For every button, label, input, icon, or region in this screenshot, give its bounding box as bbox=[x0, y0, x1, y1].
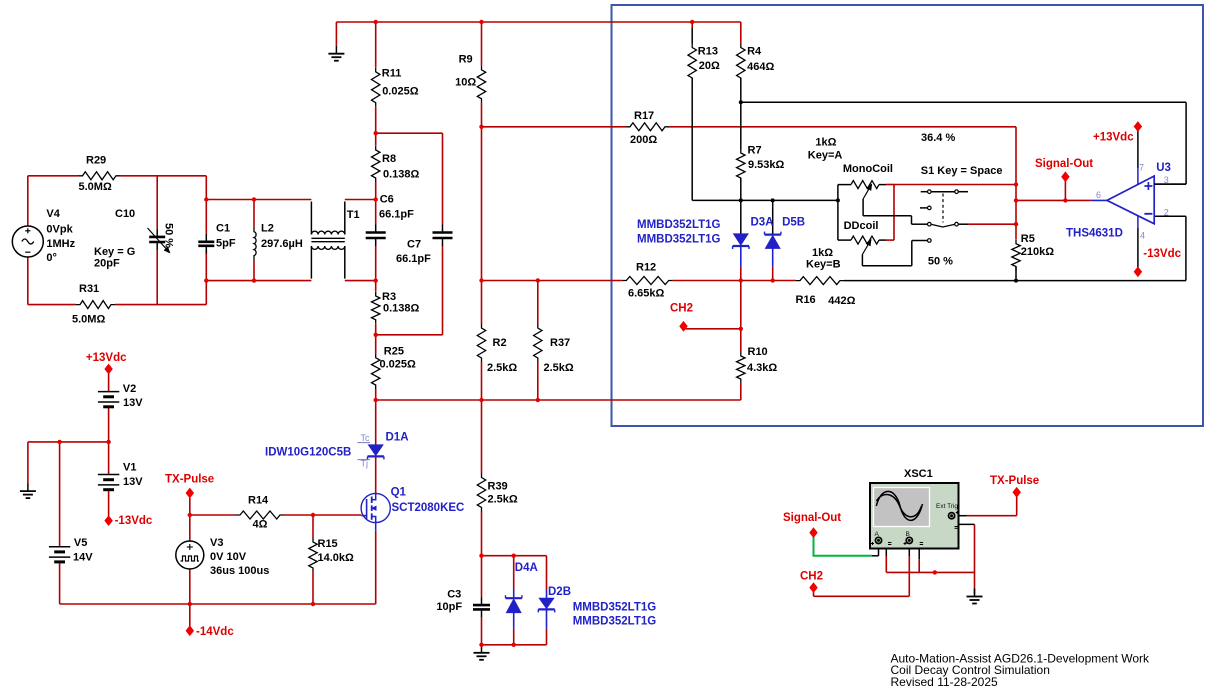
svg-text:B: B bbox=[906, 531, 910, 538]
svg-text:0.025Ω: 0.025Ω bbox=[380, 359, 417, 371]
svg-text:D3A: D3A bbox=[751, 216, 774, 228]
svg-text:297.6µH: 297.6µH bbox=[261, 238, 303, 250]
svg-text:R4: R4 bbox=[747, 46, 762, 58]
svg-text:D4A: D4A bbox=[515, 562, 538, 574]
svg-text:D2B: D2B bbox=[548, 586, 571, 598]
svg-text:1MHz: 1MHz bbox=[46, 238, 75, 250]
svg-text:Tc: Tc bbox=[361, 433, 371, 443]
svg-text:V3: V3 bbox=[210, 537, 223, 549]
svg-text:+13Vdc: +13Vdc bbox=[86, 352, 127, 364]
svg-text:DDcoil: DDcoil bbox=[844, 220, 879, 232]
svg-text:0Vpk: 0Vpk bbox=[46, 224, 73, 236]
svg-text:D5B: D5B bbox=[782, 216, 805, 228]
svg-text:50 %: 50 % bbox=[163, 223, 175, 248]
svg-text:0.138Ω: 0.138Ω bbox=[383, 169, 420, 181]
svg-text:R13: R13 bbox=[698, 46, 718, 58]
svg-text:C3: C3 bbox=[447, 589, 461, 601]
svg-text:4: 4 bbox=[1140, 231, 1145, 241]
svg-text:V1: V1 bbox=[123, 462, 136, 474]
svg-text:R3: R3 bbox=[382, 291, 396, 303]
svg-text:14V: 14V bbox=[73, 551, 93, 563]
svg-text:3: 3 bbox=[1164, 175, 1169, 185]
svg-text:66.1pF: 66.1pF bbox=[396, 253, 431, 265]
svg-text:R2: R2 bbox=[493, 337, 507, 349]
svg-text:1kΩ: 1kΩ bbox=[815, 136, 836, 148]
svg-text:MMBD352LT1G: MMBD352LT1G bbox=[573, 602, 657, 614]
svg-text:4.3kΩ: 4.3kΩ bbox=[747, 362, 777, 374]
svg-text:R37: R37 bbox=[550, 337, 570, 349]
svg-text:CH2: CH2 bbox=[670, 303, 693, 315]
svg-text:Key=B: Key=B bbox=[806, 259, 841, 271]
svg-text:R29: R29 bbox=[86, 155, 106, 167]
svg-text:A: A bbox=[875, 531, 880, 538]
svg-text:R39: R39 bbox=[488, 481, 508, 493]
svg-text:36.4 %: 36.4 % bbox=[921, 132, 955, 144]
svg-text:CH2: CH2 bbox=[800, 571, 823, 583]
svg-text:Key = G: Key = G bbox=[94, 246, 135, 258]
svg-text:R7: R7 bbox=[748, 145, 762, 157]
svg-text:THS4631D: THS4631D bbox=[1066, 228, 1123, 240]
svg-text:Signal-Out: Signal-Out bbox=[783, 512, 841, 524]
svg-text:5.0MΩ: 5.0MΩ bbox=[79, 181, 112, 193]
svg-text:10pF: 10pF bbox=[436, 601, 462, 613]
svg-text:C7: C7 bbox=[407, 239, 421, 251]
svg-text:R5: R5 bbox=[1021, 233, 1035, 245]
svg-text:R8: R8 bbox=[382, 153, 396, 165]
svg-text:2.5kΩ: 2.5kΩ bbox=[488, 494, 518, 506]
svg-text:-13Vdc: -13Vdc bbox=[115, 515, 153, 527]
svg-text:0.025Ω: 0.025Ω bbox=[382, 86, 419, 98]
svg-text:13V: 13V bbox=[123, 476, 143, 488]
svg-text:10Ω: 10Ω bbox=[455, 77, 476, 89]
svg-text:1kΩ: 1kΩ bbox=[812, 247, 833, 259]
svg-text:2.5kΩ: 2.5kΩ bbox=[487, 362, 517, 374]
svg-text:C10: C10 bbox=[115, 208, 135, 220]
svg-text:2.5kΩ: 2.5kΩ bbox=[544, 362, 574, 374]
svg-text:Signal-Out: Signal-Out bbox=[1035, 158, 1093, 170]
svg-text:4Ω: 4Ω bbox=[253, 519, 268, 531]
svg-text:MMBD352LT1G: MMBD352LT1G bbox=[637, 219, 721, 231]
svg-text:464Ω: 464Ω bbox=[747, 61, 774, 73]
svg-text:R17: R17 bbox=[634, 110, 654, 122]
svg-text:5pF: 5pF bbox=[216, 238, 236, 250]
svg-text:U3: U3 bbox=[1156, 162, 1171, 174]
svg-text:R12: R12 bbox=[636, 262, 656, 274]
svg-text:XSC1: XSC1 bbox=[904, 468, 933, 480]
svg-text:-13Vdc: -13Vdc bbox=[1143, 248, 1181, 260]
svg-text:7: 7 bbox=[1139, 163, 1144, 173]
svg-text:5.0MΩ: 5.0MΩ bbox=[72, 314, 105, 326]
svg-text:442Ω: 442Ω bbox=[828, 295, 855, 307]
svg-text:TX-Pulse: TX-Pulse bbox=[165, 474, 214, 486]
svg-text:14.0kΩ: 14.0kΩ bbox=[318, 552, 355, 564]
svg-text:13V: 13V bbox=[123, 397, 143, 409]
svg-text:R16: R16 bbox=[796, 294, 816, 306]
svg-text:V5: V5 bbox=[74, 537, 87, 549]
svg-text:R15: R15 bbox=[318, 538, 338, 550]
svg-text:6: 6 bbox=[1096, 190, 1101, 200]
svg-text:R9: R9 bbox=[459, 54, 473, 66]
svg-text:20Ω: 20Ω bbox=[699, 60, 720, 72]
svg-text:TX-Pulse: TX-Pulse bbox=[990, 475, 1039, 487]
svg-text:MMBD352LT1G: MMBD352LT1G bbox=[637, 233, 721, 245]
svg-text:MMBD352LT1G: MMBD352LT1G bbox=[573, 615, 657, 627]
svg-text:Ext Trig: Ext Trig bbox=[936, 503, 958, 510]
svg-text:66.1pF: 66.1pF bbox=[379, 209, 414, 221]
svg-text:C6: C6 bbox=[380, 194, 394, 206]
svg-text:6.65kΩ: 6.65kΩ bbox=[628, 288, 665, 300]
svg-text:IDW10G120C5B: IDW10G120C5B bbox=[265, 447, 351, 459]
svg-text:2: 2 bbox=[1164, 207, 1169, 217]
svg-text:R14: R14 bbox=[248, 495, 269, 507]
svg-text:0V 10V: 0V 10V bbox=[210, 551, 247, 563]
svg-text:V4: V4 bbox=[46, 208, 60, 220]
svg-text:R11: R11 bbox=[382, 68, 402, 80]
svg-text:20pF: 20pF bbox=[94, 258, 120, 270]
svg-text:D1A: D1A bbox=[386, 432, 409, 444]
svg-text:SCT2080KEC: SCT2080KEC bbox=[392, 502, 465, 514]
svg-text:R25: R25 bbox=[384, 346, 404, 358]
svg-text:Revised 11-28-2025: Revised 11-28-2025 bbox=[891, 675, 999, 689]
svg-text:50 %: 50 % bbox=[928, 255, 953, 267]
svg-text:200Ω: 200Ω bbox=[630, 134, 657, 146]
svg-text:36us 100us: 36us 100us bbox=[210, 565, 269, 577]
svg-text:9.53kΩ: 9.53kΩ bbox=[748, 159, 785, 171]
svg-text:T1: T1 bbox=[347, 209, 360, 221]
svg-text:210kΩ: 210kΩ bbox=[1021, 246, 1054, 258]
svg-text:S1 Key = Space: S1 Key = Space bbox=[921, 165, 1003, 177]
svg-text:0.138Ω: 0.138Ω bbox=[383, 302, 420, 314]
svg-text:0°: 0° bbox=[46, 252, 57, 264]
svg-text:+13Vdc: +13Vdc bbox=[1093, 132, 1134, 144]
svg-text:L2: L2 bbox=[261, 223, 274, 235]
svg-text:R31: R31 bbox=[79, 283, 99, 295]
svg-text:MonoCoil: MonoCoil bbox=[843, 163, 893, 175]
svg-text:C1: C1 bbox=[216, 223, 230, 235]
svg-text:Q1: Q1 bbox=[391, 487, 407, 499]
svg-text:Key=A: Key=A bbox=[808, 150, 843, 162]
svg-text:R10: R10 bbox=[748, 346, 768, 358]
svg-text:V2: V2 bbox=[123, 383, 136, 395]
svg-text:-14Vdc: -14Vdc bbox=[196, 626, 234, 638]
